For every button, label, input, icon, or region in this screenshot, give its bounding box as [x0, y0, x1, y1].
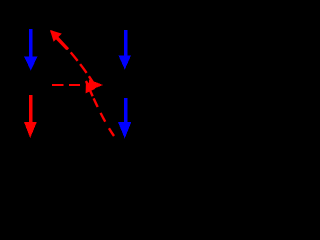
- red dashed curved arrow B (bottom-right node to center, arrowhead up-left at center): [86, 81, 114, 137]
- red arrow bottom-left (vertical, pointing down): [24, 95, 37, 138]
- red dashed horizontal arrow (pointing right into center node): [52, 80, 103, 91]
- blue arrow top-right (vertical, pointing down): [119, 30, 132, 70]
- blue arrow top-left (vertical, pointing down): [24, 29, 38, 71]
- commutative diagram, black background, 156x170: [0, 0, 156, 170]
- blue arrow bottom-right (vertical, pointing down): [118, 98, 131, 139]
- red dashed curved arrow A (center node to upper-left, arrowhead up-left): [50, 30, 94, 84]
